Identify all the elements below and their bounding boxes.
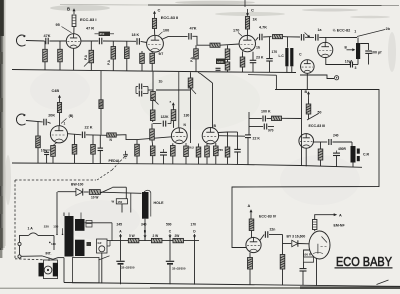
svg-text:47K: 47K [44,34,51,38]
svg-text:765: 765 [218,148,223,152]
svg-text:100: 100 [163,29,169,33]
svg-text:P.A: P.A [84,54,88,60]
svg-text:32+32∕350: 32+32∕350 [172,267,186,271]
svg-text:BW-100: BW-100 [71,183,83,187]
svg-text:170: 170 [233,29,239,33]
svg-text:3: 3 [355,66,357,70]
svg-text:ECC-83 IV: ECC-83 IV [259,214,277,218]
svg-text:2 W: 2 W [153,234,159,238]
svg-text:W: W [112,200,115,204]
svg-text:1: 1 [354,30,356,34]
svg-text:47K: 47K [190,26,197,30]
svg-text:C: C [158,8,161,13]
svg-text:1K: 1K [253,18,258,22]
svg-text:170: 170 [272,50,278,54]
svg-text:18 K: 18 K [132,33,140,37]
svg-text:B: B [305,90,308,94]
svg-text:23 K: 23 K [256,56,264,60]
svg-text:10 W: 10 W [91,196,98,200]
svg-text:122K: 122K [161,115,170,119]
svg-text:20K: 20K [48,114,55,118]
svg-text:100 pf: 100 pf [371,51,382,55]
svg-text:C: C [299,53,302,57]
svg-text:a: a [170,100,172,104]
svg-text:P.A: P.A [190,56,194,62]
svg-text:1b: 1b [159,80,163,84]
svg-text:ECC-83 I: ECC-83 I [80,17,96,22]
svg-text:5 W: 5 W [129,234,135,238]
svg-text:22n: 22n [270,228,276,232]
svg-text:(B): (B) [69,114,74,118]
svg-text:180K: 180K [217,60,224,64]
svg-text:170: 170 [191,222,197,226]
svg-text:220: 220 [44,224,49,228]
svg-text:HOLE: HOLE [154,201,165,205]
svg-text:C4B: C4B [52,89,60,93]
svg-text:26,5: 26,5 [189,146,195,150]
svg-text:ECC-83 III: ECC-83 III [309,124,326,128]
svg-text:2b: 2b [386,27,391,31]
svg-text:32+32∕350: 32+32∕350 [121,266,135,270]
svg-text:22 K: 22 K [253,137,261,141]
svg-text:ECC-83 II: ECC-83 II [161,15,179,20]
svg-text:A: A [248,204,251,208]
svg-text:INT.: INT. [46,252,52,256]
svg-text:4.7K: 4.7K [259,26,267,30]
svg-text:22 K: 22 K [85,125,93,129]
svg-text:PEDAL: PEDAL [109,159,122,163]
svg-text:150: 150 [118,200,123,204]
svg-text:95: 95 [56,23,60,27]
svg-text:GZ: GZ [98,241,102,245]
svg-text:850: 850 [100,32,105,36]
svg-text:150: 150 [53,224,58,228]
svg-text:47 R: 47 R [86,27,94,31]
svg-text:110: 110 [51,242,56,246]
svg-text:245: 245 [117,222,123,226]
svg-text:100 R: 100 R [303,253,312,257]
svg-text:9/7: 9/7 [159,52,164,56]
svg-text:100 K: 100 K [261,110,271,114]
svg-text:2W: 2W [175,234,180,238]
svg-text:1 A: 1 A [28,226,34,230]
svg-text:130: 130 [184,114,190,118]
svg-text:½ ECC-82: ½ ECC-82 [333,28,351,32]
svg-text:450R: 450R [338,147,347,151]
svg-text:240: 240 [333,134,339,138]
svg-text:C: C [251,8,254,13]
svg-text:EM-NF: EM-NF [334,223,346,227]
svg-text:BY 3 16,600: BY 3 16,600 [287,235,306,239]
svg-text:970: 970 [268,129,274,133]
svg-text:340: 340 [141,222,147,226]
svg-text:B: B [67,7,70,12]
svg-text:C.R: C.R [363,152,370,156]
svg-text:L.C: L.C [279,54,285,58]
svg-text:10μf: 10μf [345,59,353,63]
svg-text:A: A [339,213,342,217]
svg-text:1: 1 [64,122,66,126]
svg-text:ECO BABY: ECO BABY [336,254,392,269]
svg-text:P.A: P.A [107,59,111,65]
svg-text:1a: 1a [318,28,322,32]
svg-text:1b: 1b [256,46,260,50]
svg-text:500: 500 [166,222,172,226]
